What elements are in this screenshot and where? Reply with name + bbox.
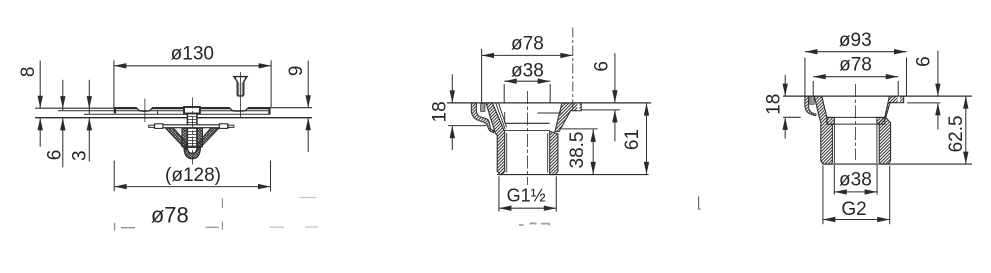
cup floor slab left <box>827 117 834 124</box>
dim (Ø128) extension right <box>270 161 272 192</box>
grate slot dip 1 <box>137 108 153 111</box>
cup floor line <box>827 116 885 118</box>
middle centerline <box>526 91 528 185</box>
pipe bottom line <box>497 174 648 176</box>
dim 62.5 shaft <box>965 96 967 164</box>
dim Ø78 extension left <box>812 81 814 95</box>
svg-text:3: 3 <box>70 150 91 161</box>
dim (Ø128) line <box>114 186 270 188</box>
dim Ø130 extension right <box>270 60 272 107</box>
dim Ø38 extension left <box>503 84 505 102</box>
dim Ø93 line <box>805 51 907 53</box>
svg-text:61: 61 <box>622 129 643 150</box>
svg-text:G1½: G1½ <box>507 186 546 206</box>
cut-off dimension remnants bottom <box>115 199 223 231</box>
dim 18 upper shaft <box>451 74 453 102</box>
dim Ø38 extension right <box>549 84 551 102</box>
svg-text:62.5: 62.5 <box>946 115 967 152</box>
plate bottom surface line <box>35 117 312 119</box>
dim 61 shaft <box>646 103 648 174</box>
plate top surface line left <box>35 107 115 109</box>
dim 18 upper shaft <box>784 75 786 96</box>
dim G2 line <box>823 219 890 221</box>
dim 6 reference line <box>582 109 620 111</box>
screw shank <box>187 114 197 148</box>
dim G1 1/2 extension left <box>498 176 500 211</box>
left funnel wall band <box>486 103 505 175</box>
dim 6 lower shaft <box>614 110 616 141</box>
dim 8 lower shaft <box>39 118 41 147</box>
dim 38.5 shaft <box>592 129 594 174</box>
bore thread lines <box>834 125 877 164</box>
pipe bottom line <box>822 163 972 165</box>
dim G1 1/2 line <box>499 207 556 209</box>
svg-text:6: 6 <box>914 56 935 67</box>
dim Ø78 extension right dash-dot <box>572 28 574 112</box>
svg-text:ø78: ø78 <box>839 55 872 76</box>
dim 6 upper shaft <box>937 51 939 96</box>
slot centerline <box>144 99 146 123</box>
center screw boss <box>184 107 200 114</box>
spider arm left column <box>182 128 187 147</box>
left rim gasket block <box>810 97 814 105</box>
countersunk screw above plate <box>234 77 247 96</box>
bore top line <box>832 123 879 125</box>
svg-text:38.5: 38.5 <box>567 132 588 169</box>
left funnel wall and pipe wall <box>814 96 832 164</box>
cut-off text remnant below <box>519 223 550 225</box>
svg-text:ø78: ø78 <box>511 33 544 54</box>
dim 38.5 reference line top <box>562 128 598 130</box>
spider arm right strut <box>198 128 219 150</box>
bar pin right <box>228 125 234 127</box>
dim Ø130 extension left <box>113 60 115 107</box>
fitting top surface line <box>783 95 972 97</box>
bore neck line <box>506 122 550 124</box>
dim Ø38 line <box>504 80 550 82</box>
svg-text:ø78: ø78 <box>151 203 189 228</box>
fitting top surface line <box>447 102 651 104</box>
screw shank thread ticks <box>188 117 196 147</box>
screw head top lip <box>236 77 246 79</box>
dim G2 extension left <box>822 166 824 225</box>
dim Ø78 extension left <box>481 49 483 103</box>
svg-text:ø38: ø38 <box>511 61 544 82</box>
dim Ø78 line <box>813 76 898 78</box>
dim Ø93 extension right <box>906 58 908 96</box>
grate top thick profile segment 3 <box>201 107 230 109</box>
screw shank thread line <box>239 82 242 95</box>
plate inner line 6mm level <box>58 110 268 112</box>
spider arm right column <box>197 128 202 147</box>
svg-text:ø38: ø38 <box>839 169 872 190</box>
svg-text:18: 18 <box>763 94 784 115</box>
dim Ø130 line <box>114 65 271 67</box>
main centerline <box>191 98 193 165</box>
left rim curl <box>805 96 816 115</box>
dim Ø38 extension right <box>876 165 878 195</box>
counterbore shoulder right <box>538 112 562 114</box>
right rim white slot <box>577 104 579 111</box>
bar tab right <box>219 124 227 129</box>
bar tab left <box>155 124 163 129</box>
dim Ø78 line <box>482 54 573 56</box>
plate inner line 3mm level <box>84 113 270 115</box>
dim Ø38 line <box>834 191 877 193</box>
dim 6 lower shaft <box>62 118 64 167</box>
dim 9 lower shaft <box>307 118 309 152</box>
dim 18 lower shaft <box>451 126 453 150</box>
bore thread lines <box>507 133 548 173</box>
dim 9 upper shaft <box>307 61 309 108</box>
dim 18 lower shaft <box>784 118 786 139</box>
svg-text:G2: G2 <box>841 199 866 220</box>
left rim curl band <box>471 103 494 133</box>
svg-text:18: 18 <box>429 101 450 122</box>
svg-text:ø93: ø93 <box>839 30 872 51</box>
dim 6 lower shaft <box>937 103 939 129</box>
bar pin left <box>149 125 155 127</box>
svg-text:6: 6 <box>592 61 613 72</box>
right rim block and funnel wall and pipe wall <box>879 96 904 164</box>
dim Ø38 extension left <box>833 165 835 195</box>
left rim gasket block <box>481 103 485 111</box>
cup floor slab right <box>877 117 885 124</box>
funnel inner cone lines <box>496 103 507 129</box>
right funnel wall band <box>555 103 581 132</box>
dim (Ø128) extension left <box>113 161 115 192</box>
bore thread start line <box>505 130 550 132</box>
plate top surface line right <box>271 107 312 109</box>
dim 6 reference line <box>907 102 940 104</box>
dim 3 lower shaft <box>88 118 90 161</box>
dim 3 upper shaft <box>88 80 90 114</box>
screw centerline <box>239 72 241 118</box>
dim 6 upper shaft <box>62 80 64 110</box>
dim G2 extension right <box>889 166 891 225</box>
counterbore edge left <box>504 112 506 123</box>
spider cross bar <box>155 125 229 128</box>
grate frame step tick <box>157 111 159 115</box>
svg-text:8: 8 <box>18 67 39 78</box>
dim 18 reference line <box>448 125 487 127</box>
dim 6 upper shaft <box>614 53 616 102</box>
grate top thick profile right part <box>248 108 270 114</box>
grate screw recess dip 2 <box>230 108 249 111</box>
right rim white slot <box>898 97 900 103</box>
stray fragment right of view <box>699 196 701 209</box>
svg-text:ø130: ø130 <box>171 44 214 65</box>
faint remnants far right <box>270 198 318 228</box>
dim 8 upper shaft <box>39 61 41 108</box>
spider arm left strut <box>165 128 186 150</box>
svg-text:6: 6 <box>45 150 66 161</box>
svg-text:9: 9 <box>286 66 307 77</box>
dim 18 reference line <box>783 116 801 118</box>
spider bottom cup <box>184 147 201 159</box>
grate top thick profile <box>115 108 137 113</box>
svg-text:(ø128): (ø128) <box>165 165 221 186</box>
grate top thick profile segment 2 <box>152 107 183 109</box>
dim G1 1/2 extension right <box>555 176 557 211</box>
dim Ø78 extension right <box>897 81 899 95</box>
right centerline <box>855 84 857 160</box>
dim Ø93 extension left <box>804 58 806 96</box>
right pipe wall <box>550 131 558 174</box>
